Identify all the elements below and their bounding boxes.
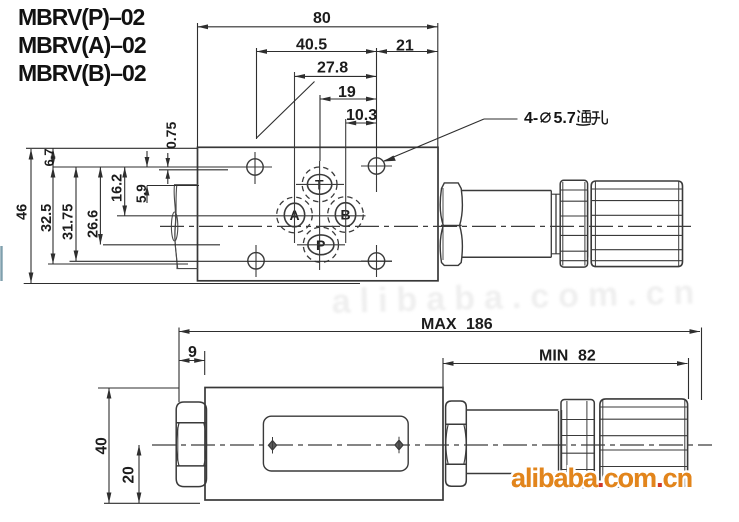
hex lock nut (top view) [440, 183, 462, 266]
collar (side view) [559, 410, 562, 474]
port T [302, 167, 337, 202]
svg-text:16.2: 16.2 [110, 174, 126, 202]
dim 40 line [108, 388, 110, 503]
MIN ext left / block edge ext [442, 358, 444, 387]
dim 16.2 line [124, 167, 126, 216]
dim col ext right holes [376, 48, 378, 150]
sleeve cylinder (side view) [466, 410, 558, 474]
port B crosshair vertical [345, 119, 347, 243]
P row extension line [103, 244, 220, 246]
MIN ext right [688, 358, 690, 399]
hex lock nut (side view right) [446, 401, 467, 486]
40/20 bottom ext line [104, 502, 200, 504]
svg-text:20: 20 [121, 466, 138, 483]
svg-text:27.8: 27.8 [317, 60, 348, 77]
svg-text:9: 9 [188, 344, 197, 361]
oblique extension line [257, 82, 315, 139]
port P [303, 227, 338, 262]
dim 80 ext left [197, 23, 199, 147]
dim 10.3 line [346, 122, 377, 124]
svg-text:5.9: 5.9 [134, 184, 149, 203]
adjustment knob (top view) [591, 181, 682, 267]
svg-text:MAX: MAX [421, 316, 457, 333]
svg-text:32.5: 32.5 [39, 204, 55, 232]
dim 26.6 line [99, 167, 101, 245]
groove between ring and knob (side view) [594, 410, 600, 474]
port A [277, 197, 313, 233]
dim 27.8 line [295, 75, 377, 77]
mounting hole top-left [238, 152, 272, 184]
svg-text:82: 82 [578, 348, 596, 365]
svg-text:40: 40 [94, 437, 111, 454]
port T crosshair [296, 161, 344, 270]
svg-text:46: 46 [15, 204, 31, 220]
hanzi kong [591, 110, 607, 124]
A-B row line [117, 215, 366, 217]
valve sleeve cylinder (top view) [462, 191, 551, 258]
svg-text:80: 80 [313, 10, 331, 27]
adjustment knob (side view) [600, 399, 688, 487]
dim 19 line [320, 98, 377, 100]
diamond marker right [395, 437, 403, 454]
holes row extension line [53, 166, 240, 168]
dim 80/21 ext right [437, 23, 439, 147]
dim 20 line [138, 445, 140, 503]
groove between ring and knob (top view) [588, 191, 592, 258]
hanzi tong [576, 110, 590, 125]
46 bottom extension line [24, 283, 360, 285]
diameter symbol [541, 113, 550, 122]
port P crosshair [297, 244, 345, 246]
32.5 bottom line [48, 263, 188, 265]
svg-text:21: 21 [396, 38, 414, 55]
dim 31.75 line [75, 167, 77, 261]
dim 9 ext right [204, 351, 206, 375]
svg-text:31.75: 31.75 [61, 204, 77, 240]
dim 6.7 line [52, 148, 54, 167]
svg-text:MBRV(P)–02: MBRV(P)–02 [18, 4, 145, 30]
svg-text:5.7: 5.7 [554, 110, 576, 127]
teal scan artifact left edge [0, 246, 2, 281]
knurled lock ring (top view) [560, 180, 587, 267]
mounting hole top-right [361, 150, 392, 192]
mounting hole bottom-right [361, 245, 392, 277]
0.75 offset line [159, 169, 228, 171]
hex end nut (side view left) [176, 402, 206, 487]
top edge extension line [26, 147, 197, 149]
valve body block (side view) [205, 388, 443, 501]
dim 46 line [30, 149, 32, 283]
svg-text:0.75: 0.75 [163, 122, 179, 149]
MAX ext right [701, 328, 703, 401]
T row extension line [147, 185, 199, 187]
svg-text:26.6: 26.6 [86, 210, 102, 238]
port A crosshair vertical [294, 72, 296, 243]
mounting hole bottom-left [248, 245, 264, 277]
svg-text:4-: 4- [524, 110, 538, 127]
dim 19 ext left [319, 95, 321, 161]
centerline (bottom view) [152, 444, 712, 446]
dim 21 line [377, 51, 438, 53]
collar (top view) [551, 191, 560, 258]
dim 32.5 line [52, 167, 54, 264]
knurled lock ring (side view) [561, 400, 594, 488]
leader 4-d5.7 [383, 119, 518, 162]
svg-text:MBRV(A)–02: MBRV(A)–02 [18, 32, 146, 58]
dim MIN 82 line [443, 363, 688, 365]
svg-text:186: 186 [466, 316, 493, 333]
svg-text:19: 19 [338, 84, 356, 101]
MAX ext left [178, 328, 180, 403]
dim 40.5 ext left [256, 48, 258, 139]
dim 40.5 line [257, 51, 377, 53]
dim MAX 186 line [179, 331, 700, 333]
port B [328, 197, 364, 233]
svg-text:40.5: 40.5 [296, 37, 327, 54]
diamond marker left [268, 437, 276, 454]
svg-text:MBRV(B)–02: MBRV(B)–02 [18, 60, 146, 86]
svg-text:6.7: 6.7 [42, 148, 57, 166]
name plate slot [263, 416, 408, 471]
left plug (top view) [171, 185, 198, 269]
dim 80 line [198, 26, 438, 28]
svg-text:MIN: MIN [539, 348, 568, 365]
dim 0.75 arrows [167, 153, 169, 167]
40 top ext line [98, 387, 179, 389]
dim 9 line [179, 360, 205, 362]
bottom holes row line [70, 260, 393, 262]
valve body block (top view) [198, 147, 439, 280]
svg-text:alibaba.com.cn: alibaba.com.cn [511, 463, 692, 493]
centerline (top view) [160, 225, 691, 227]
svg-text:10.3: 10.3 [346, 107, 377, 124]
